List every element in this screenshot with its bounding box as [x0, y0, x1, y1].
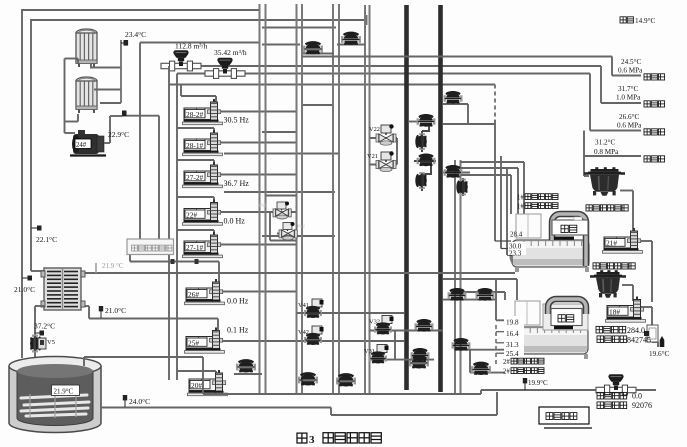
label pump2-stop — [503, 358, 544, 366]
svg-text:27-1#: 27-1# — [186, 243, 204, 252]
filter tank A — [584, 167, 625, 196]
valve D1-b — [415, 133, 426, 150]
button start — [552, 217, 588, 240]
sensor 21.0C left — [22, 276, 32, 281]
svg-text:P11: P11 — [259, 204, 267, 209]
wire cluster stubs — [443, 173, 470, 197]
svg-text:92076: 92076 — [632, 401, 652, 410]
heat-exchange coil 2 — [76, 77, 97, 113]
pump 27-1# — [183, 232, 223, 258]
svg-text:25#: 25# — [188, 338, 199, 347]
label 0.6MPa a — [618, 67, 643, 75]
wire inner loop to HX — [31, 270, 45, 272]
wire tankA piping — [620, 191, 633, 234]
wire HX to tank — [35, 306, 45, 358]
pipe trunk P4 — [365, 5, 370, 394]
unit V42 — [298, 326, 324, 345]
wire value stubs 2 — [496, 332, 508, 354]
wire cluster2 line A — [443, 279, 508, 320]
svg-text:27-2#: 27-2# — [186, 173, 204, 182]
label west-return — [644, 129, 665, 135]
wire inner loop top — [31, 15, 367, 25]
label 24.5C — [621, 58, 641, 66]
wire dashed x496 — [495, 325, 497, 367]
svg-text:14.9°C: 14.9°C — [635, 17, 655, 25]
wire rung long 153 — [224, 153, 340, 155]
sensor 24.0C — [123, 395, 127, 407]
label backwash-stop 2 — [593, 263, 635, 269]
valve mid-2 — [341, 32, 361, 45]
flow meter 35.42 — [205, 58, 245, 79]
wire west-supply feed — [583, 155, 641, 157]
svg-text:26.6°C: 26.6°C — [619, 113, 639, 121]
svg-text:16.4: 16.4 — [506, 330, 519, 338]
unit V41 — [298, 299, 324, 318]
svg-text:30.5 Hz: 30.5 Hz — [224, 116, 250, 125]
button stop — [551, 309, 582, 330]
pipe dark trunk D1 — [404, 5, 409, 390]
valve cluster2-c — [415, 319, 434, 332]
caption — [297, 433, 381, 446]
wire line y359 — [370, 359, 435, 361]
label 24.0C — [129, 397, 150, 406]
label 21.9C — [96, 262, 124, 273]
wire V22 line — [370, 138, 398, 165]
wire chiller2 arch — [548, 299, 586, 314]
wire rung y44 — [262, 44, 300, 46]
wire tankB piping — [622, 285, 633, 301]
wire rung y27 — [262, 27, 336, 29]
valve cluster2-e — [452, 338, 471, 351]
plate heat exchanger — [41, 268, 85, 310]
unit V22 — [369, 124, 396, 145]
wire west-supply line — [584, 131, 589, 177]
label 22.9C — [108, 130, 129, 139]
wire rung 195 — [266, 195, 297, 197]
pump 28-2# — [183, 99, 223, 125]
wire rung 28-1 inlet — [177, 128, 214, 134]
label 21.0C left — [14, 285, 35, 294]
sensor 22.1C — [31, 226, 42, 231]
label 30.5Hz — [224, 116, 250, 125]
label east-supply — [644, 101, 665, 107]
svg-text:24.5°C: 24.5°C — [621, 58, 641, 66]
valve D2-top — [444, 91, 463, 104]
wire 26 inlet lineA — [130, 255, 219, 283]
svg-text:31.2°C: 31.2°C — [595, 139, 615, 147]
wire rung 27-2 inlet — [177, 160, 214, 166]
pipe trunk P5 — [455, 160, 461, 394]
svg-text:23.3: 23.3 — [509, 250, 522, 258]
wire value lines 1 — [495, 85, 511, 256]
label 22.1C — [36, 235, 57, 244]
svg-text:284.0: 284.0 — [627, 326, 645, 335]
label flow2 — [597, 392, 642, 401]
svg-text:2#: 2# — [503, 369, 510, 376]
wire chiller2 feed2 — [461, 292, 505, 300]
wire rung 124 — [443, 123, 495, 125]
valve D1-a — [417, 114, 436, 127]
wire HX bottom line — [81, 306, 218, 331]
pump 21# — [603, 228, 643, 253]
svg-text:37.2°C: 37.2°C — [34, 322, 55, 331]
wire 23.4 header — [140, 42, 260, 44]
svg-text:21#: 21# — [606, 238, 617, 247]
svg-text:28-2#: 28-2# — [186, 110, 204, 119]
wire collector B — [101, 392, 497, 415]
valve cluster2-f — [471, 362, 491, 375]
svg-text:28-1#: 28-1# — [186, 141, 204, 150]
wire rung 25 outlet — [222, 340, 404, 342]
pipe trunk P1 — [260, 4, 266, 394]
svg-text:25.4: 25.4 — [506, 350, 519, 358]
label 30.0 — [501, 242, 526, 255]
pump 18# — [606, 297, 646, 323]
wire chiller1 arch — [552, 214, 586, 266]
label 1.0MPa — [616, 94, 641, 102]
label pump1-ok — [517, 203, 558, 211]
wire 22.9 line — [122, 115, 159, 117]
svg-text:1#: 1# — [517, 195, 524, 202]
flow transmitter — [644, 325, 658, 342]
wire rung 27-1 outlet — [221, 244, 296, 246]
wire outer loop left — [21, 9, 23, 358]
label 36.7Hz — [224, 179, 250, 188]
label 31.3 — [506, 341, 519, 349]
wire east-supply turn — [601, 66, 641, 103]
svg-text:2#: 2# — [503, 359, 510, 366]
label 25.4 — [506, 350, 519, 358]
wire trunk x159 — [140, 43, 159, 240]
wire west-return turn — [590, 74, 641, 131]
valve D1-d — [415, 172, 426, 189]
wire rung pump 28-2 inlet — [169, 85, 495, 105]
pump 27-2# — [183, 162, 223, 188]
wire east-return line — [302, 57, 641, 76]
svg-text:V31: V31 — [364, 348, 375, 355]
wire outer loop top — [22, 9, 260, 11]
label pump1-stop — [517, 194, 558, 202]
wire chiller1 feed a — [461, 162, 525, 214]
wire D1 chain stubs — [408, 122, 436, 192]
valve mid-1 — [303, 41, 323, 54]
pump 22# — [183, 200, 223, 226]
svg-text:V22: V22 — [369, 126, 380, 133]
wire rung extra132 — [262, 131, 296, 133]
pump 24# — [70, 130, 106, 156]
chiller unit 2 — [508, 301, 588, 359]
svg-text:V21: V21 — [367, 153, 378, 160]
water tank — [9, 357, 101, 433]
label 112.8 — [175, 42, 208, 51]
label flow2b — [597, 401, 652, 410]
svg-text:0.1 Hz: 0.1 Hz — [227, 326, 249, 335]
unit V32 — [369, 316, 394, 335]
wire collector A — [203, 390, 656, 394]
label 0.8MPa — [594, 148, 619, 156]
wire line y372 — [470, 372, 505, 374]
svg-text:22.9°C: 22.9°C — [108, 130, 129, 139]
label 19.6C — [649, 350, 669, 358]
svg-text:0.0 Hz: 0.0 Hz — [224, 217, 246, 226]
label backwash-stop 1 — [586, 205, 628, 211]
valve bottom-2 — [298, 372, 318, 385]
svg-text:19.6°C: 19.6°C — [649, 350, 669, 358]
label 31.2C — [595, 139, 615, 147]
label flow1b — [597, 336, 651, 345]
wire rung 26 outlet — [222, 291, 296, 293]
pipe trunk P3 — [333, 4, 339, 394]
label outdoor — [620, 17, 655, 25]
svg-text:22.1°C: 22.1°C — [36, 235, 57, 244]
svg-text:V42: V42 — [298, 329, 309, 336]
label flow1 — [596, 326, 645, 335]
svg-text:31.7°C: 31.7°C — [618, 85, 638, 93]
svg-text:19.9°C: 19.9°C — [528, 379, 548, 387]
wire rung 22 outlet — [221, 211, 296, 213]
svg-text:V32: V32 — [369, 319, 380, 326]
label 0.0Hz b — [227, 297, 249, 306]
flow meter bottom — [596, 374, 636, 395]
valve cluster2-a — [448, 288, 467, 301]
wire rung 28-1 outlet — [221, 142, 296, 144]
unit V21 — [367, 151, 396, 171]
svg-text:21.9°C: 21.9°C — [54, 388, 74, 396]
label 31.7C — [618, 85, 638, 93]
label east-return — [644, 74, 665, 80]
svg-text:21.0°C: 21.0°C — [105, 306, 126, 315]
wire pump supply pair — [169, 66, 177, 380]
wire rung 20 inlet — [177, 371, 216, 374]
valve bottom-3 — [336, 373, 356, 386]
wire pump24 outlet — [104, 116, 122, 143]
label 23.3 — [509, 250, 522, 258]
label 19.8 — [504, 316, 524, 358]
wire V11 loop — [270, 213, 297, 241]
svg-text:842745: 842745 — [627, 336, 651, 345]
svg-text:1.0 MPa: 1.0 MPa — [616, 94, 641, 102]
svg-text:28.4: 28.4 — [510, 231, 523, 239]
valve cluster-b — [456, 179, 467, 196]
label 37.2C — [34, 322, 55, 331]
svg-text:0.8 MPa: 0.8 MPa — [594, 148, 619, 156]
sensor 19.9C — [523, 378, 527, 390]
wire chiller1 feed c — [461, 175, 512, 214]
wire V41 line — [297, 312, 405, 314]
wire V21 line — [370, 164, 398, 166]
label box hot-water-tank — [127, 239, 174, 255]
svg-text:20#: 20# — [191, 381, 202, 390]
sensor 23.4C — [121, 40, 128, 46]
svg-text:24.0°C: 24.0°C — [129, 397, 150, 406]
label 0.0Hz a — [224, 217, 246, 226]
pump 28-1# — [183, 130, 223, 156]
svg-text:21.0°C: 21.0°C — [14, 285, 35, 294]
pump 20# — [188, 370, 228, 396]
wire chiller1 feed b — [461, 168, 519, 214]
valve cluster2-d — [411, 348, 430, 361]
svg-text:36.7 Hz: 36.7 Hz — [224, 179, 250, 188]
label V5 — [47, 339, 55, 346]
svg-text:1#: 1# — [517, 204, 524, 211]
sensor 37.2C — [35, 331, 44, 336]
svg-text:V5: V5 — [47, 339, 55, 346]
svg-text:112.8 m³/h: 112.8 m³/h — [175, 42, 208, 51]
valve V5 — [30, 335, 46, 353]
label 23.4C — [125, 30, 146, 39]
wire rung 27-2 outlet — [221, 174, 296, 176]
wire rung 28-2 outlet — [221, 111, 296, 113]
svg-text:3: 3 — [309, 434, 315, 446]
svg-text:23.4°C: 23.4°C — [125, 30, 146, 39]
wire chiller2 feed1 — [443, 279, 517, 300]
valve cluster-a — [444, 165, 463, 178]
wire line y330 — [370, 331, 444, 360]
label 19.9C — [528, 379, 548, 387]
pipe dark trunk D2 — [438, 5, 443, 392]
svg-text:18#: 18# — [609, 307, 620, 316]
wire rung extra236 — [262, 235, 335, 237]
svg-text:35.42 m³/h: 35.42 m³/h — [214, 48, 247, 57]
chiller unit 1 — [509, 214, 589, 272]
wire flow header 1 — [169, 65, 601, 67]
label 28.4 — [495, 231, 523, 242]
svg-text:0.6 MPa: 0.6 MPa — [618, 67, 643, 75]
wire rung P2P3 105 — [302, 104, 333, 106]
button screen-switch — [539, 407, 592, 428]
wire line y349 — [455, 350, 505, 373]
wire inner loop left — [30, 19, 32, 271]
wire rung 22 inlet — [177, 197, 214, 203]
svg-text:0.0: 0.0 — [632, 392, 642, 401]
svg-text:22#: 22# — [186, 210, 197, 219]
label pump2-ok — [503, 368, 544, 376]
filter tank B — [590, 270, 626, 298]
svg-text:31.3: 31.3 — [506, 341, 519, 349]
unit V11 — [259, 202, 291, 219]
label 0.1Hz — [227, 326, 249, 335]
svg-text:V41: V41 — [298, 302, 309, 309]
wire rung 27-1 inlet — [177, 230, 214, 236]
wire HX top line — [81, 272, 515, 274]
svg-text:0.0 Hz: 0.0 Hz — [227, 297, 249, 306]
svg-text:21.9 °C: 21.9 °C — [102, 262, 124, 270]
valve D1-c — [417, 153, 436, 166]
svg-text:P12: P12 — [297, 225, 305, 230]
valve cluster2-b — [476, 288, 495, 301]
wire flow header 2 — [177, 73, 590, 75]
flow meter 112.8 — [161, 50, 201, 71]
svg-text:24#: 24# — [76, 142, 87, 149]
svg-text:19.8: 19.8 — [506, 319, 519, 327]
sensor 19.6C — [660, 336, 665, 347]
svg-text:26#: 26# — [188, 290, 199, 299]
label 26.6C — [619, 113, 639, 121]
wire rung 192 — [224, 191, 335, 193]
wire pump21 out — [641, 241, 652, 302]
wire rung v313 — [303, 53, 334, 55]
label west-supply — [644, 156, 665, 162]
wire D2 stub 104 — [443, 104, 468, 124]
wire stub v351 — [337, 44, 365, 46]
unit V12 — [279, 222, 305, 240]
label 21.0C mid — [99, 306, 126, 318]
label 16.4 — [506, 330, 519, 338]
label 0.6MPa b — [617, 122, 642, 130]
unit V31 — [364, 345, 389, 364]
label 35.42 — [214, 48, 247, 57]
valve bottom-5 — [409, 355, 429, 368]
pump 25# — [185, 328, 225, 354]
svg-text:0.6 MPa: 0.6 MPa — [617, 122, 642, 130]
heat-exchange coil 1 — [76, 29, 97, 67]
wire pump18 out — [641, 307, 658, 347]
sensor 22.9C — [122, 111, 127, 117]
pump 26# — [185, 279, 225, 305]
wire coil piping — [65, 40, 122, 133]
pipe trunk P2 — [297, 4, 303, 394]
wire tank upper line — [84, 357, 203, 394]
valve bottom-1 — [234, 359, 262, 374]
